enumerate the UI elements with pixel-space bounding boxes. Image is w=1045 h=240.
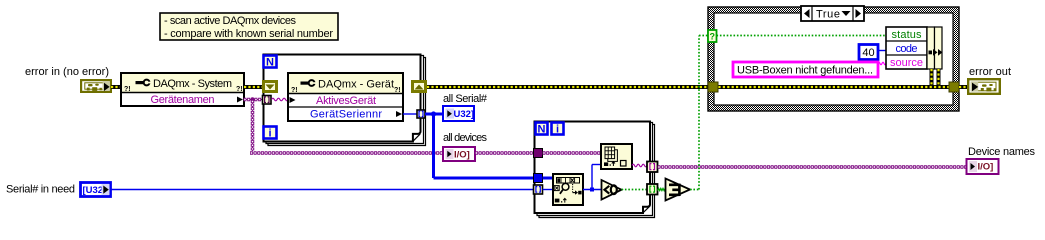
svg-text:all Serial#: all Serial# xyxy=(443,93,488,105)
tunnel: error out on case right border xyxy=(949,82,959,92)
tunnel: error in on case left border xyxy=(708,82,718,92)
wire: error stub into bundle xyxy=(930,69,934,87)
wire: error through case xyxy=(714,85,954,89)
wire: index up to Index Array xyxy=(591,165,593,190)
case selector terminal ? xyxy=(708,30,717,42)
wire: boolean to tunnel xyxy=(622,189,648,191)
svg-text:error in (no error): error in (no error) xyxy=(25,66,109,78)
wire: error right SR to case structure xyxy=(427,85,709,89)
constant: 40 xyxy=(859,45,878,60)
wire: serial array down xyxy=(432,114,435,178)
svg-text:error out: error out xyxy=(969,66,1011,78)
svg-text:DAQmx - System: DAQmx - System xyxy=(153,78,232,90)
tunnel: serial array into loop (solid blue) xyxy=(534,174,543,183)
tunnel: all devices into loop (non indexing, solid) xyxy=(534,149,543,158)
svg-text:?!: ?! xyxy=(124,86,131,93)
svg-text:Device names: Device names xyxy=(968,146,1036,158)
svg-text:U32]: U32] xyxy=(454,109,475,120)
svg-text:?!: ?! xyxy=(394,87,401,94)
wire: serial array to inner loop xyxy=(434,177,535,180)
function: Search 1D Array xyxy=(553,174,583,205)
svg-text:?: ? xyxy=(710,32,716,42)
wire: 40 to code xyxy=(879,50,887,52)
indexing tunnel: device names out xyxy=(647,162,658,173)
subVI U2: DAQmx - Geraet xyxy=(288,73,403,121)
svg-text:all devices: all devices xyxy=(443,132,488,144)
wire: Geraetenamen string-array chain to tunnel xyxy=(244,99,263,101)
error in terminal xyxy=(80,79,112,93)
wire: error stub out of bundle xyxy=(937,69,941,87)
subVI U1: DAQmx - System xyxy=(121,73,244,106)
indicator: Device names [I/O] xyxy=(967,159,999,174)
for loop F2 count terminal N xyxy=(536,123,548,136)
wire: wavy string to source xyxy=(878,62,886,65)
svg-text:[U32: [U32 xyxy=(83,185,104,196)
comparison node: less than 0 xyxy=(602,180,622,200)
wire: boolean to case selector xyxy=(690,36,708,190)
for loop F2 border xyxy=(535,122,655,218)
junction: serial array branch xyxy=(431,111,436,116)
for loop F1 count terminal N xyxy=(264,56,277,69)
svg-text:Serial# in need: Serial# in need xyxy=(6,184,75,196)
svg-text:code: code xyxy=(896,43,918,55)
wire: all devices chain left segment xyxy=(250,152,443,154)
svg-text:- compare with known serial nu: - compare with known serial number xyxy=(164,28,333,40)
for loop F2 iteration terminal i xyxy=(552,123,564,136)
indicator: all devices [I/O] xyxy=(443,147,475,161)
svg-text:N: N xyxy=(266,57,274,69)
wire: error case to error out xyxy=(959,85,968,89)
svg-text:Gerätenamen: Gerätenamen xyxy=(151,94,215,106)
wire: search result to less-than-zero xyxy=(583,189,601,191)
for loop F1 border xyxy=(264,55,426,146)
svg-text:DAQmx - Gerät: DAQmx - Gerät xyxy=(318,79,394,91)
svg-text:AktivesGerät: AktivesGerät xyxy=(316,95,376,107)
function: Or Array Elements (exists) xyxy=(666,179,691,201)
svg-text:I/O]: I/O] xyxy=(978,162,994,173)
indexing tunnel: serial out xyxy=(417,110,425,118)
svg-text:GerätSeriennr: GerätSeriennr xyxy=(310,109,382,121)
wire: wavy device name to tunnel xyxy=(632,164,647,167)
wire: chain inside loop to Index Array xyxy=(543,152,602,154)
wire: serial scalar to Search node xyxy=(543,189,554,191)
function: Bundle By Name (status/code/source) xyxy=(886,27,943,69)
wire: boolean selector to status xyxy=(717,35,887,37)
case selector label: True xyxy=(801,6,864,21)
control: Serial# in need [U32] xyxy=(81,183,111,197)
for loop F1 iteration terminal i xyxy=(264,127,277,140)
wire: error in to DAQmx System xyxy=(111,85,122,89)
wire: error System to left shift register xyxy=(244,85,263,89)
indexing tunnel: Geraetenamen into loop xyxy=(263,96,272,105)
comment box: scan active DAQmx devices xyxy=(160,13,338,40)
svg-text:i: i xyxy=(556,124,559,136)
svg-text:USB-Boxen nicht gefunden...: USB-Boxen nicht gefunden... xyxy=(737,65,873,77)
wire: serial array to indicator xyxy=(425,113,443,116)
indicator: all Serial# [U32] xyxy=(443,106,474,121)
svg-text:source: source xyxy=(890,57,923,69)
svg-text:True: True xyxy=(816,9,840,21)
wire: chain down from junction xyxy=(252,100,254,151)
wire: all devices chain right segment xyxy=(475,152,535,154)
indexing tunnel: Serial# in need into loop xyxy=(534,185,543,194)
function: Index Array xyxy=(601,144,632,169)
svg-text:- scan active DAQmx devices: - scan active DAQmx devices xyxy=(164,15,297,27)
indexing tunnel: boolean out xyxy=(647,184,658,195)
svg-text:N: N xyxy=(538,124,546,136)
shift register left (down arrow) xyxy=(264,82,277,92)
svg-text:?!: ?! xyxy=(291,87,298,94)
wire: serial array to Search node xyxy=(543,177,554,180)
svg-text:40: 40 xyxy=(862,47,874,59)
svg-text:status: status xyxy=(892,29,923,41)
wire: Serial# in need to inner loop xyxy=(111,189,534,191)
wire: chain device names to indicator xyxy=(658,166,967,168)
wire: GeraetSeriennr to indexing tunnel xyxy=(403,113,417,115)
string constant: USB-Boxen nicht gefunden... xyxy=(733,62,878,77)
svg-text:I/O]: I/O] xyxy=(454,150,470,161)
indicator: error out xyxy=(967,78,1001,95)
junction: chain branch node xyxy=(250,97,254,101)
wire: wavy string tunnel to AktivesGeraet xyxy=(272,98,289,101)
shift register right (up arrow) xyxy=(413,82,426,92)
case structure border xyxy=(708,7,959,111)
svg-text:i: i xyxy=(268,128,271,140)
junction: index branch xyxy=(590,188,594,192)
wire: boolean tunnel to Or-Array-Elements xyxy=(658,188,667,190)
svg-text:?!: ?! xyxy=(236,86,243,93)
